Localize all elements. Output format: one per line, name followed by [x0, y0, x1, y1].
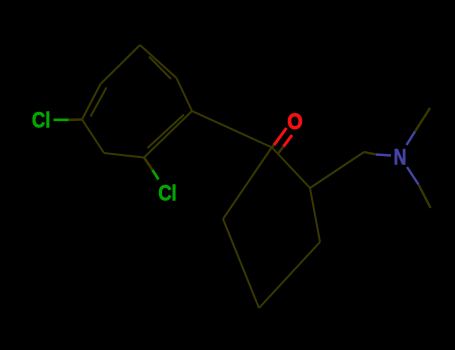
- wire 5-ring E-D1: [310, 188, 320, 242]
- C=O double bond (olive halves): [271, 142, 276, 149]
- bond D2-N (olive half): [364, 152, 376, 155]
- bond ring-Cl1 (green half): [54, 119, 69, 122]
- bond ring-Cl2 (olive half): [144, 158, 153, 171]
- svg-text:Cl: Cl: [158, 181, 177, 206]
- bond N-CH3 down (blue half then olive): [407, 167, 419, 185]
- aryl ring (distorted hexagon): [82, 45, 192, 158]
- wire ring P1-P2: [82, 84, 101, 120]
- wire ring P3-P4: [140, 45, 177, 78]
- wire ring inner double line P5-P6: [148, 115, 185, 149]
- bond D2-N (blue half): [376, 155, 391, 156]
- bond ring-Cl2 (green half): [153, 170, 159, 180]
- wire ring P6-P7: [104, 153, 144, 158]
- wire ring P7-P1: [82, 120, 104, 154]
- wire ring inner double line P1-P2: [91, 88, 107, 117]
- wire ring P4-P5: [177, 78, 193, 111]
- bond N-CH3 up (blue half then olive): [407, 132, 416, 146]
- wire chain P5-carbonyl: [192, 111, 272, 148]
- wire chain D1-D2: [310, 152, 364, 188]
- long chain into carbonyl: [192, 111, 364, 308]
- wire 5-ring B-F: [223, 219, 259, 308]
- wire ring inner double line P3-P4: [149, 57, 171, 80]
- C=O double bond (red halves): [274, 128, 287, 145]
- wire 5-ring D1-carbonyl: [272, 148, 310, 189]
- wire 5-ring carbonyl-B: [223, 147, 272, 219]
- svg-text:O: O: [287, 109, 302, 134]
- wire ring P5-P6: [144, 111, 192, 158]
- bond ring-Cl1 (olive half): [69, 118, 83, 121]
- svg-text:N: N: [394, 144, 407, 169]
- wire ring P2-P3: [101, 45, 141, 84]
- wire 5-ring F-E: [259, 242, 320, 308]
- svg-text:Cl: Cl: [32, 108, 51, 133]
